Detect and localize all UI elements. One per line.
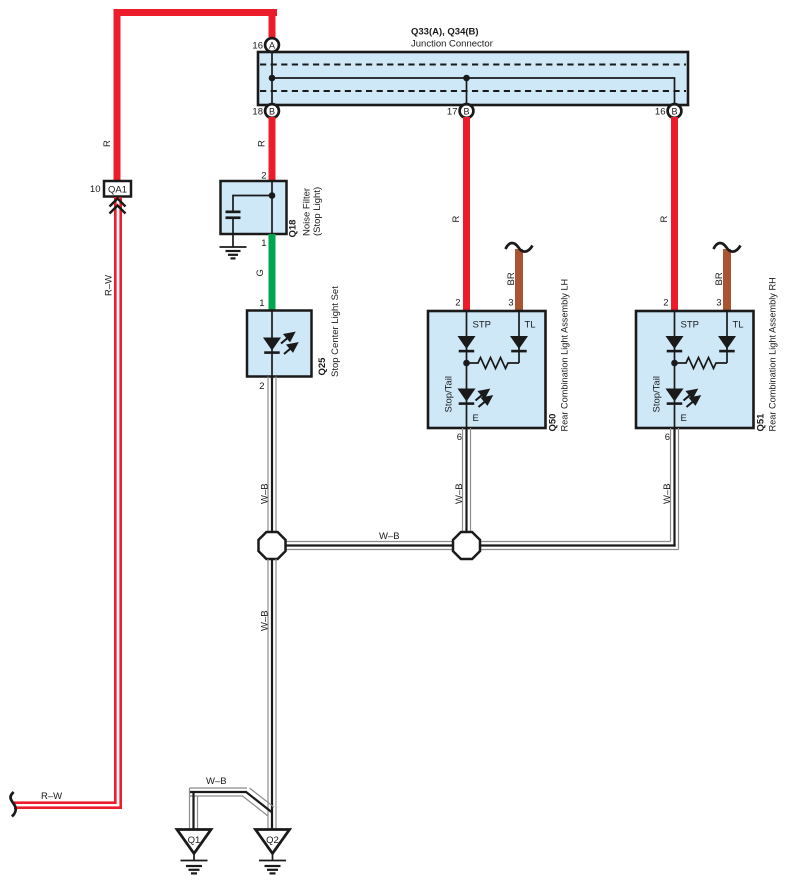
svg-text:STP: STP <box>473 320 491 331</box>
svg-text:17: 17 <box>447 107 458 118</box>
junction node dot A-bus <box>269 75 276 82</box>
connector pass-through chevrons below QA1 <box>110 199 126 207</box>
wire R from 17(B) to Q50 <box>463 117 470 311</box>
pin A circle (16) <box>265 38 279 52</box>
svg-text:Rear Combination Light Assembl: Rear Combination Light Assembly RH <box>768 277 778 431</box>
wire G green <box>269 234 276 311</box>
svg-text:BR: BR <box>506 272 517 285</box>
wire W-B octagon1 down to grounds <box>268 559 276 830</box>
svg-text:Q18: Q18 <box>288 220 299 238</box>
wire BR brown to Q51 <box>723 249 731 311</box>
svg-text:1: 1 <box>261 238 266 249</box>
noise filter Q18 box <box>221 181 287 234</box>
rear combination light assembly LH Q50 box <box>428 311 546 428</box>
svg-text:R–W: R–W <box>104 275 115 296</box>
svg-text:3: 3 <box>716 298 721 309</box>
svg-text:STP: STP <box>681 320 699 331</box>
stop center light set Q25 box <box>247 311 312 377</box>
wire R top-left horizontal <box>114 9 278 16</box>
ground Q1 earth symbol <box>181 854 208 874</box>
svg-text:Q25: Q25 <box>317 357 328 376</box>
svg-text:Rear Combination Light Assembl: Rear Combination Light Assembly LH <box>560 279 570 432</box>
Q51 STP branch wire <box>674 311 676 428</box>
svg-text:R: R <box>451 216 462 223</box>
wire R-W striped vertical <box>114 197 117 804</box>
pin B circle (16) <box>668 104 682 118</box>
svg-text:W–B: W–B <box>260 483 271 504</box>
wire BR brown to Q50 <box>515 249 523 311</box>
svg-text:Noise Filter: Noise Filter <box>302 188 313 236</box>
wire W-B branch to Q1 (horizontal + diagonal) <box>190 788 275 830</box>
svg-text:R: R <box>659 216 670 223</box>
svg-text:Q33(A), Q34(B): Q33(A), Q34(B) <box>411 27 479 38</box>
pin B circle (17) <box>460 104 474 118</box>
svg-text:(Stop Light): (Stop Light) <box>312 187 323 236</box>
svg-text:W–B: W–B <box>379 531 400 542</box>
svg-text:Q51: Q51 <box>756 413 767 432</box>
Q50 TL branch wire <box>518 311 520 363</box>
svg-text:16: 16 <box>655 107 666 118</box>
wire R from 16(B) to Q51 <box>671 117 678 311</box>
Q18 internal through wire <box>271 181 273 234</box>
svg-text:Q1: Q1 <box>188 835 201 846</box>
svg-text:1: 1 <box>259 298 264 309</box>
capacitor to ground wire <box>232 219 234 247</box>
svg-text:B: B <box>463 106 469 116</box>
svg-text:2: 2 <box>259 381 264 392</box>
svg-text:W–B: W–B <box>662 483 673 504</box>
svg-text:6: 6 <box>665 432 670 443</box>
wire continuation squiggle on BR (Q50) <box>506 243 533 252</box>
Q25 internal wire <box>271 311 273 377</box>
Q18 junction dot <box>269 192 276 199</box>
junction node dot 17B-bus <box>463 75 470 82</box>
wire W-B from Q50 to octagon 2 <box>463 428 471 533</box>
svg-text:6: 6 <box>457 432 462 443</box>
ground Q1 triangle <box>177 830 211 854</box>
junction octagon node 2 <box>453 532 480 559</box>
ground Q2 triangle <box>256 830 290 854</box>
ground Q2 earth symbol <box>259 854 286 874</box>
svg-text:R: R <box>102 140 113 147</box>
resistor R (Q51) <box>675 358 728 369</box>
svg-text:BR: BR <box>714 272 725 285</box>
wire W-B from Q51 down and left to octagon 2 <box>480 428 679 550</box>
connector QA1 <box>104 181 131 197</box>
svg-text:B: B <box>269 106 275 116</box>
capacitor C (Q18) plates <box>226 211 241 214</box>
LED lamp (Q51 Stop/Tail) <box>666 389 684 402</box>
wire R-W striped horizontal bottom <box>14 801 117 804</box>
Q18 capacitor branch wire <box>233 196 272 211</box>
wire R from 18(B) to Q18 <box>269 117 276 181</box>
LED D (Q25) <box>263 338 281 351</box>
svg-text:10: 10 <box>90 184 101 195</box>
wire R to pin A vertical <box>269 9 276 39</box>
svg-text:18: 18 <box>252 107 263 118</box>
LED lamp (Q50 Stop/Tail) <box>458 389 476 402</box>
junction connector internal bus wire <box>271 52 273 105</box>
wire continuation squiggle bottom-left <box>11 792 16 817</box>
svg-text:A: A <box>269 40 275 50</box>
svg-text:B: B <box>671 106 677 116</box>
svg-text:TL: TL <box>733 320 744 331</box>
junction connector dashed line lower <box>260 90 686 92</box>
rear combination light assembly RH Q51 box <box>636 311 754 428</box>
svg-text:Stop Center Light Set: Stop Center Light Set <box>330 286 341 377</box>
svg-text:3: 3 <box>508 298 513 309</box>
LED arrows Q25 <box>281 333 297 354</box>
junction octagon node 1 <box>259 532 286 559</box>
svg-text:16: 16 <box>252 41 263 52</box>
svg-text:Q2: Q2 <box>266 835 279 846</box>
svg-text:E: E <box>473 413 479 424</box>
wire W-B from Q25 to junction octagon <box>268 377 276 533</box>
pin B circle (18) <box>265 104 279 118</box>
svg-text:W–B: W–B <box>260 610 271 631</box>
svg-text:R: R <box>257 140 268 147</box>
junction connector Q33/Q34 box <box>258 52 688 105</box>
wire R left vertical <box>114 9 121 181</box>
svg-text:W–B: W–B <box>454 483 465 504</box>
svg-text:QA1: QA1 <box>108 185 127 196</box>
junction connector dashed line upper <box>260 64 686 66</box>
svg-text:Q50: Q50 <box>548 414 559 432</box>
Q51 TL branch wire <box>726 311 728 363</box>
svg-text:Stop/Tail: Stop/Tail <box>652 376 663 412</box>
ground symbol below Q18 <box>220 247 247 258</box>
junction dot Q50 <box>463 360 470 367</box>
svg-text:G: G <box>255 269 266 276</box>
diode D2 (Q50 TL) <box>510 336 528 349</box>
resistor R (Q50) <box>467 358 520 369</box>
diode D1 (Q51 STP) <box>666 336 684 349</box>
diode D1 (Q50 STP) <box>458 336 476 349</box>
svg-text:E: E <box>681 413 687 424</box>
diode D2 (Q51 TL) <box>718 336 736 349</box>
svg-text:W–B: W–B <box>206 776 227 787</box>
wire continuation squiggle on BR (Q51) <box>714 243 741 252</box>
svg-text:R–W: R–W <box>41 791 62 802</box>
svg-text:Junction Connector: Junction Connector <box>411 39 493 50</box>
svg-text:2: 2 <box>663 298 668 309</box>
junction dot Q51 <box>671 360 678 367</box>
Q50 STP branch wire <box>466 311 468 428</box>
svg-text:2: 2 <box>455 298 460 309</box>
svg-text:TL: TL <box>525 320 536 331</box>
wire W-B octagon1 to octagon2 horizontal <box>285 542 454 550</box>
svg-text:Stop/Tail: Stop/Tail <box>444 376 455 412</box>
